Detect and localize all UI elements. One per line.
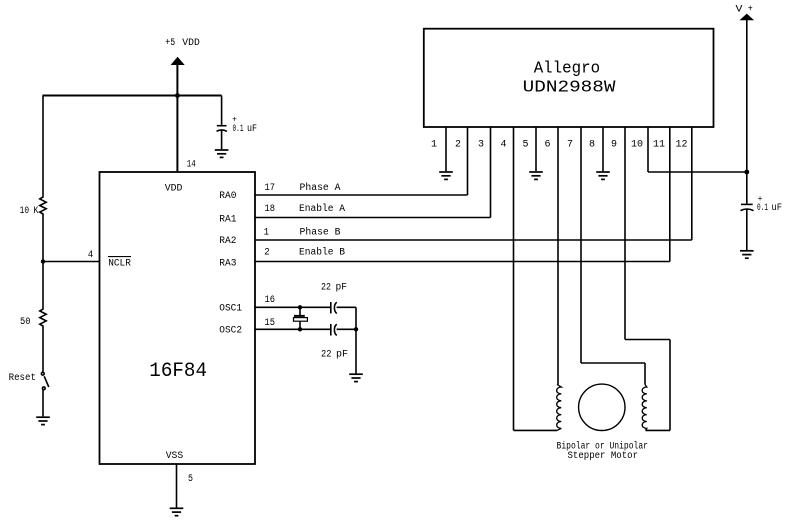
svg-text:2: 2 xyxy=(264,248,270,259)
svg-text:10: 10 xyxy=(20,206,30,217)
svg-text:RA1: RA1 xyxy=(219,214,236,225)
svg-text:Phase A: Phase A xyxy=(300,182,341,194)
svg-text:5: 5 xyxy=(522,140,528,151)
svg-text:3: 3 xyxy=(478,140,484,151)
svg-text:K: K xyxy=(33,206,38,217)
svg-text:RA2: RA2 xyxy=(219,236,236,247)
svg-text:11: 11 xyxy=(653,140,665,151)
svg-text:4: 4 xyxy=(500,140,506,151)
svg-text:7: 7 xyxy=(567,140,573,151)
svg-text:pF: pF xyxy=(336,283,348,294)
svg-text:uF: uF xyxy=(247,124,257,135)
svg-text:Enable A: Enable A xyxy=(299,203,345,215)
svg-text:+: + xyxy=(748,5,753,16)
svg-text:Reset: Reset xyxy=(9,373,36,384)
svg-text:OSC1: OSC1 xyxy=(219,303,242,314)
svg-text:+5: +5 xyxy=(165,38,175,49)
svg-text:22: 22 xyxy=(321,349,332,360)
svg-text:Enable B: Enable B xyxy=(299,247,345,259)
svg-text:RA3: RA3 xyxy=(219,258,236,269)
svg-text:+: + xyxy=(758,195,763,204)
svg-text:16F84: 16F84 xyxy=(149,360,207,383)
svg-text:15: 15 xyxy=(265,318,276,329)
svg-text:50: 50 xyxy=(20,317,31,328)
svg-text:12: 12 xyxy=(675,140,687,151)
svg-text:0.1: 0.1 xyxy=(757,203,768,214)
svg-text:10: 10 xyxy=(631,140,643,151)
svg-text:22: 22 xyxy=(321,283,331,294)
svg-text:8: 8 xyxy=(589,140,595,151)
svg-text:Phase B: Phase B xyxy=(300,227,341,239)
svg-text:OSC2: OSC2 xyxy=(219,325,242,336)
svg-text:uF: uF xyxy=(772,203,783,214)
svg-text:NCLR: NCLR xyxy=(108,258,131,269)
svg-text:+: + xyxy=(232,116,237,125)
svg-text:17: 17 xyxy=(265,183,276,194)
svg-text:5: 5 xyxy=(188,474,193,485)
svg-text:Stepper Motor: Stepper Motor xyxy=(568,451,639,462)
svg-text:6: 6 xyxy=(544,140,550,151)
svg-text:14: 14 xyxy=(187,160,196,171)
svg-text:18: 18 xyxy=(265,204,276,215)
svg-text:4: 4 xyxy=(88,250,94,261)
svg-text:Allegro: Allegro xyxy=(534,60,600,79)
svg-text:16: 16 xyxy=(265,295,276,306)
svg-text:2: 2 xyxy=(455,140,461,151)
svg-text:VSS: VSS xyxy=(166,451,184,462)
svg-text:RA0: RA0 xyxy=(219,191,236,202)
svg-text:VDD: VDD xyxy=(182,38,200,49)
svg-text:pF: pF xyxy=(336,349,348,360)
svg-text:VDD: VDD xyxy=(165,184,183,195)
svg-text:UDN2988W: UDN2988W xyxy=(523,79,617,98)
svg-text:0.1: 0.1 xyxy=(233,124,244,135)
svg-text:1: 1 xyxy=(264,228,270,239)
svg-text:1: 1 xyxy=(431,140,437,151)
svg-text:9: 9 xyxy=(611,140,617,151)
svg-text:V: V xyxy=(736,5,743,16)
